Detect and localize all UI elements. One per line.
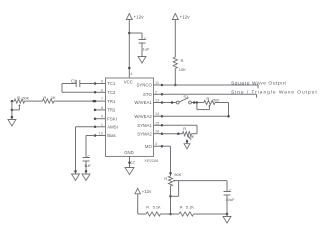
svg-text:C: C bbox=[229, 188, 232, 193]
svg-text:Bias: Bias bbox=[107, 133, 115, 138]
svg-text:50K: 50K bbox=[174, 172, 181, 177]
svg-text:10: 10 bbox=[99, 132, 103, 136]
svg-text:9: 9 bbox=[101, 115, 103, 119]
svg-text:3: 3 bbox=[155, 142, 157, 146]
svg-text:50K: 50K bbox=[23, 96, 30, 100]
svg-text:1: 1 bbox=[101, 123, 103, 127]
svg-text:1uF: 1uF bbox=[84, 163, 91, 168]
svg-text:STO: STO bbox=[143, 92, 152, 97]
svg-text:C1: C1 bbox=[71, 78, 77, 83]
svg-text:11: 11 bbox=[155, 81, 159, 85]
svg-text:6: 6 bbox=[101, 88, 103, 92]
svg-text:VCC: VCC bbox=[124, 79, 133, 84]
svg-text:R: R bbox=[207, 96, 210, 101]
svg-text:SYMA1: SYMA1 bbox=[137, 123, 152, 128]
svg-text:WAVEA2: WAVEA2 bbox=[134, 114, 152, 119]
svg-text:C: C bbox=[144, 36, 147, 41]
svg-text:+12v: +12v bbox=[142, 189, 152, 194]
svg-text:R: R bbox=[180, 205, 183, 210]
svg-text:5K: 5K bbox=[190, 134, 195, 139]
svg-text:TR1: TR1 bbox=[107, 99, 116, 104]
svg-text:12: 12 bbox=[131, 160, 135, 164]
svg-text:R: R bbox=[181, 58, 184, 63]
svg-text:XR2206: XR2206 bbox=[144, 158, 158, 163]
svg-text:R: R bbox=[43, 95, 46, 100]
svg-text:C: C bbox=[87, 154, 90, 159]
svg-text:TC2: TC2 bbox=[107, 90, 116, 95]
svg-text:+12v: +12v bbox=[134, 15, 145, 20]
svg-text:10K: 10K bbox=[179, 67, 186, 72]
svg-text:2: 2 bbox=[155, 90, 157, 94]
svg-text:+12v: +12v bbox=[180, 15, 191, 20]
svg-text:5.1K: 5.1K bbox=[186, 205, 194, 210]
svg-text:15: 15 bbox=[155, 121, 159, 125]
svg-text:5.1K: 5.1K bbox=[153, 205, 161, 210]
svg-text:SYMA2: SYMA2 bbox=[137, 131, 152, 136]
svg-text:S1: S1 bbox=[183, 94, 188, 99]
svg-text:AMSI: AMSI bbox=[107, 125, 118, 130]
svg-text:TR2: TR2 bbox=[107, 108, 116, 113]
svg-text:R: R bbox=[146, 205, 149, 210]
svg-text:Sine / Triangle Wave Output: Sine / Triangle Wave Output bbox=[231, 89, 318, 95]
svg-text:16: 16 bbox=[155, 130, 159, 134]
svg-text:500: 500 bbox=[213, 99, 219, 103]
svg-text:4: 4 bbox=[130, 72, 132, 76]
svg-text:10uF: 10uF bbox=[225, 197, 235, 202]
svg-text:8: 8 bbox=[101, 106, 103, 110]
svg-text:1K: 1K bbox=[51, 95, 56, 100]
svg-text:R: R bbox=[164, 176, 167, 181]
svg-text:13: 13 bbox=[155, 99, 159, 103]
svg-text:5: 5 bbox=[101, 80, 103, 84]
svg-text:SYNCO: SYNCO bbox=[137, 83, 153, 88]
svg-text:1uF: 1uF bbox=[142, 47, 149, 52]
svg-text:FSKI: FSKI bbox=[107, 116, 117, 121]
svg-text:Square Wave Output: Square Wave Output bbox=[231, 80, 286, 86]
svg-text:R: R bbox=[17, 95, 20, 100]
svg-text:R: R bbox=[183, 126, 186, 131]
svg-text:WAVEA1: WAVEA1 bbox=[134, 100, 152, 105]
svg-text:TC1: TC1 bbox=[107, 81, 116, 86]
svg-text:MO: MO bbox=[145, 144, 153, 149]
svg-text:GND: GND bbox=[124, 150, 134, 155]
svg-text:7: 7 bbox=[101, 97, 103, 101]
svg-text:14: 14 bbox=[155, 112, 159, 116]
